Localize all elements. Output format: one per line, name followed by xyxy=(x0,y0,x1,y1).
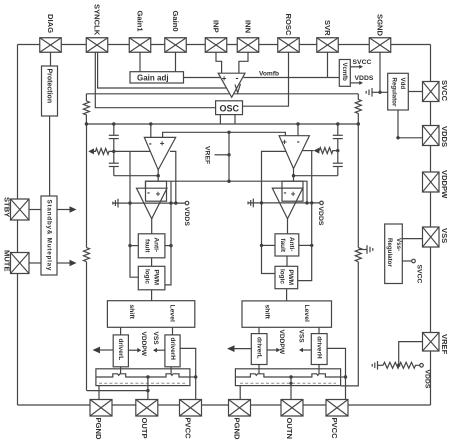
wire MUTE pad to Standby block xyxy=(29,262,41,264)
block Anti-fault right xyxy=(275,234,299,256)
svg-text:shift: shift xyxy=(263,305,270,320)
block driverH left xyxy=(165,335,180,367)
wire right feedback vertical upper xyxy=(357,124,359,248)
svg-text:SVCC: SVCC xyxy=(353,59,372,66)
wire DIAG to Protection xyxy=(50,52,52,66)
node AF-R right xyxy=(310,244,313,247)
node AF-L right xyxy=(169,244,172,247)
wire LS-L to driverH xyxy=(172,327,174,335)
wire left border xyxy=(17,45,19,406)
wire net A to opamp1R inverting input xyxy=(297,124,299,136)
node opamp1R output junction xyxy=(292,174,295,177)
svg-text:-: - xyxy=(284,187,287,197)
svg-text:OUTN: OUTN xyxy=(285,418,294,440)
block Anti-fault left xyxy=(138,234,165,258)
terminal VDDS left channel xyxy=(185,201,189,205)
wire opamp1L output xyxy=(157,170,159,176)
node right rail tap1 xyxy=(260,201,263,204)
wire VREF label stub xyxy=(215,154,230,156)
wire gate high-side left xyxy=(170,367,172,374)
ground arrow driverL left xyxy=(93,347,114,354)
pad VSS xyxy=(423,227,440,247)
wire line2 to rail left xyxy=(170,181,172,203)
wire SYNCLK down and right to OSC xyxy=(95,52,215,107)
terminal VDDS at divider xyxy=(420,364,424,368)
wire gate low-side right xyxy=(258,365,260,374)
node left feedback mid xyxy=(112,150,115,153)
terminal VDDS right channel xyxy=(320,201,324,205)
block Vcmfb xyxy=(339,60,350,87)
svg-text:shift: shift xyxy=(128,305,135,320)
wire VREF pad to divider xyxy=(399,342,423,366)
svg-text:+: + xyxy=(222,74,227,83)
pad SGND xyxy=(369,38,391,53)
svg-text:+: + xyxy=(291,189,296,198)
wire power rect to PVCC right xyxy=(341,376,346,378)
wire left tap of opamp1R down xyxy=(262,151,287,203)
resistor right feedback vertical xyxy=(355,248,361,262)
wire VREF distribution line xyxy=(163,132,286,137)
wire SYNCLK branch to input op-amp xyxy=(98,52,227,88)
wire comparator reference line xyxy=(146,181,308,203)
node A opamp1L input xyxy=(149,122,152,125)
svg-text:VDDS: VDDS xyxy=(424,370,431,389)
svg-text:-: - xyxy=(147,187,150,197)
resistor right feedback xyxy=(319,148,338,154)
svg-text:driverL: driverL xyxy=(117,339,124,361)
resistor left feedback vertical xyxy=(84,248,90,262)
svg-text:OSC: OSC xyxy=(220,103,240,113)
wire OUTN down xyxy=(290,377,292,400)
block power stage right xyxy=(235,369,340,386)
wire right channel VDDS rail xyxy=(248,202,320,204)
svg-text:SVCC: SVCC xyxy=(416,265,423,284)
svg-text:Gain0: Gain0 xyxy=(171,11,180,32)
svg-text:Regulator: Regulator xyxy=(390,78,397,107)
svg-text:logic: logic xyxy=(278,269,285,284)
wire net A to opamp1L inverting input xyxy=(150,124,152,137)
svg-text:VDDS: VDDS xyxy=(317,207,324,226)
svg-text:VDDPW: VDDPW xyxy=(140,332,147,357)
svg-text:driverL: driverL xyxy=(256,337,263,359)
pad STBY xyxy=(11,199,30,220)
svg-text:+: + xyxy=(160,139,165,148)
svg-text:STBY: STBY xyxy=(2,197,11,217)
pad VREF xyxy=(423,333,440,352)
node VREF divider tap xyxy=(397,364,400,367)
wire standby output arrow xyxy=(57,206,77,213)
wire right border xyxy=(430,45,432,406)
wire VDDPW arrow right xyxy=(267,348,280,353)
op-amp U1 input stage xyxy=(218,73,245,97)
node A opamp1R input xyxy=(296,122,299,125)
svg-text:fault: fault xyxy=(279,239,286,253)
node left rail tap2 xyxy=(169,201,172,204)
svg-text:VSS: VSS xyxy=(297,330,304,344)
wire left feedback vertical lower xyxy=(86,262,88,391)
pad VDDPW xyxy=(423,172,440,192)
wire PVCC right connection xyxy=(327,348,345,399)
wire comparator R output xyxy=(287,219,289,234)
wire top border xyxy=(18,44,431,46)
node VREF line center xyxy=(227,131,230,134)
wire Vss regulator SVCC stub xyxy=(402,260,412,262)
svg-text:Vss-: Vss- xyxy=(395,238,402,251)
svg-text:SGND: SGND xyxy=(376,14,385,36)
svg-text:logic: logic xyxy=(144,269,151,284)
svg-text:PGND: PGND xyxy=(94,418,103,440)
ground stub at right feedback resistor xyxy=(358,245,373,254)
wire output interconnect left xyxy=(114,175,158,177)
node A left end xyxy=(85,122,88,125)
pad MUTE xyxy=(11,253,30,274)
node AF-L left xyxy=(128,244,131,247)
block Level shift right xyxy=(242,301,332,327)
node A right end xyxy=(357,122,360,125)
node reference line VREF xyxy=(227,180,230,183)
pad SYNCLK xyxy=(86,38,108,53)
svg-text:fault: fault xyxy=(144,239,151,253)
svg-text:Vcmfb: Vcmfb xyxy=(341,63,347,82)
svg-text:INP: INP xyxy=(212,20,221,33)
wire OUTP down xyxy=(147,377,149,400)
block power stage left xyxy=(96,369,190,386)
wire SGND to Vdd regulator xyxy=(380,91,388,93)
node VDDS corner xyxy=(396,136,399,139)
wire Gain1 down xyxy=(139,52,141,71)
pad OUTP xyxy=(136,400,158,417)
wire Vomfb line op-amp to Vcmfb block xyxy=(244,77,340,79)
svg-text:VSS: VSS xyxy=(152,332,159,346)
svg-text:-: - xyxy=(297,137,300,147)
wire right tap2 down to PWM-R xyxy=(298,203,312,281)
comparator right xyxy=(272,181,303,219)
wire SVR down to Vomfb line xyxy=(327,52,329,77)
wire LS-R to driverL xyxy=(258,327,260,333)
wire into comparator L xyxy=(157,176,159,182)
block driverH right xyxy=(311,334,327,365)
block OSC xyxy=(216,101,243,115)
svg-text:Gain1: Gain1 xyxy=(136,11,145,33)
block PWM logic right xyxy=(275,266,298,288)
svg-text:SVR: SVR xyxy=(323,20,332,36)
wire STBY pad to Standby block xyxy=(29,209,41,211)
pad SVCC xyxy=(423,82,440,102)
wire PVCC left connection xyxy=(180,348,196,399)
wire left channel VDDS rail xyxy=(113,202,186,204)
wire left feedback vertical xyxy=(86,124,88,248)
pad Gain0 xyxy=(165,38,187,53)
wire comparator L output xyxy=(151,219,153,234)
wire Vdd regulator to VDDS pad xyxy=(398,110,423,138)
resistor below SYNCLK line xyxy=(83,94,89,124)
wire bridge left with transistors xyxy=(96,374,190,377)
wire AF-R to PWM-R xyxy=(286,256,288,266)
svg-text:+: + xyxy=(282,137,287,146)
wire bottom border xyxy=(18,404,431,406)
svg-text:Level: Level xyxy=(303,305,310,322)
wire VREF vertical xyxy=(228,132,230,181)
node SGND junction xyxy=(378,91,381,94)
block Vss-Regulator xyxy=(385,224,403,284)
svg-text:OUTP: OUTP xyxy=(140,418,149,439)
wire right tap1 down to PWM-R xyxy=(262,203,276,274)
op-amp integrator right xyxy=(279,136,309,169)
svg-text:PGND: PGND xyxy=(233,418,242,440)
wire right tap of opamp1L down xyxy=(170,151,176,203)
svg-text:ROSC: ROSC xyxy=(284,14,293,36)
block driverL right xyxy=(251,334,267,365)
wire left tap1 down to PWM-L xyxy=(130,203,138,277)
wire AF-R left side xyxy=(262,244,276,246)
wire mute output arrow xyxy=(57,260,77,267)
node AF-R left xyxy=(260,244,263,247)
svg-text:INN: INN xyxy=(244,20,253,33)
block PWM logic left xyxy=(138,266,165,290)
capacitor right chain bottom xyxy=(333,163,343,176)
wire PGND right connection xyxy=(239,386,241,400)
wire left tap down xyxy=(129,151,131,203)
wire AF-R right side xyxy=(299,244,312,246)
arrow on right feedback xyxy=(314,148,320,154)
pad SVR xyxy=(317,38,339,53)
wire Vss regulator to VSS pad xyxy=(402,238,422,240)
svg-text:VDDPW: VDDPW xyxy=(278,330,285,355)
terminal SVCC at Vss regulator xyxy=(412,259,416,263)
wire VDDPW arrow left xyxy=(128,348,141,353)
ground arrow left feedback xyxy=(88,148,94,154)
wire AF-L to PWM-L xyxy=(151,258,153,267)
pad PVCC left xyxy=(180,400,202,417)
node PVCC right stub xyxy=(344,375,347,378)
wire bridge right with transistors xyxy=(235,374,340,377)
ground at VREF divider xyxy=(372,361,383,370)
wire gate low-side left xyxy=(120,367,122,374)
svg-text:+: + xyxy=(156,189,161,198)
block Standby and Mute xyxy=(41,196,57,275)
svg-text:Gain adj: Gain adj xyxy=(137,74,169,83)
pad INP xyxy=(205,38,227,53)
svg-text:driverH: driverH xyxy=(169,338,176,361)
capacitor right chain top xyxy=(333,124,343,163)
pad OUTN xyxy=(281,400,303,417)
svg-text:VDDS: VDDS xyxy=(355,75,374,82)
block Protection xyxy=(42,66,58,116)
wire PWM-L to level shift xyxy=(151,290,153,301)
wire Gain0 down xyxy=(175,52,177,71)
ground left channel rail xyxy=(113,199,118,208)
wire INP into op-amp xyxy=(216,52,222,73)
svg-text:DIAG: DIAG xyxy=(46,14,55,33)
wire main horizontal net A xyxy=(86,123,358,125)
svg-text:MUTE: MUTE xyxy=(2,250,11,272)
wire SGND down xyxy=(379,52,381,92)
wire VSS arrow right xyxy=(299,348,311,353)
pad VDDS xyxy=(423,126,440,146)
wire ROSC down into OSC xyxy=(243,52,289,106)
svg-text:VDDS: VDDS xyxy=(440,126,449,147)
wire LS-L to driverL xyxy=(120,327,122,335)
svg-text:VREF: VREF xyxy=(440,334,449,355)
svg-text:VDDS: VDDS xyxy=(183,207,190,226)
pad INN xyxy=(237,38,259,53)
node left rail tap1 xyxy=(128,201,131,204)
wire LS-R to driverH xyxy=(318,327,320,333)
svg-text:-: - xyxy=(149,138,152,148)
wire Vdd regulator to SVCC pad xyxy=(408,91,422,93)
svg-text:PWM: PWM xyxy=(153,270,160,286)
block Vdd Regulator xyxy=(388,73,409,110)
op-amp integrator left xyxy=(144,137,175,169)
wire opamp1R output xyxy=(293,169,295,176)
wire PGND left connection xyxy=(98,386,100,400)
wire Vcmfb VDDS stub arrow xyxy=(350,81,363,85)
svg-text:VREF: VREF xyxy=(204,146,211,164)
wire OSC output left drop xyxy=(219,115,221,124)
svg-text:Vdd: Vdd xyxy=(399,78,406,90)
ground at SGND net xyxy=(366,88,380,97)
pad PGND right xyxy=(229,400,251,417)
node VREF stub junction xyxy=(227,153,230,156)
node right feedback mid xyxy=(336,149,339,152)
svg-text:SYNCLK: SYNCLK xyxy=(93,4,102,36)
svg-text:PVCC: PVCC xyxy=(330,418,339,440)
pad PGND left xyxy=(90,400,112,417)
block driverL left xyxy=(113,335,128,367)
wire gate high-side right xyxy=(318,365,320,374)
svg-text:PWM: PWM xyxy=(287,270,294,286)
pad DIAG xyxy=(40,38,62,53)
svg-text:Standby& Muteplay: Standby& Muteplay xyxy=(45,200,52,271)
wire right tap of opamp1R xyxy=(303,150,314,152)
capacitor left chain top xyxy=(109,124,119,163)
svg-text:-: - xyxy=(236,73,239,83)
block Gain adj xyxy=(130,72,184,83)
wire left tap2 down to PWM-L xyxy=(165,203,171,285)
wire INN into op-amp xyxy=(239,52,248,73)
svg-text:Anti-: Anti- xyxy=(288,237,295,252)
comparator left xyxy=(137,181,168,219)
svg-text:Vomfb: Vomfb xyxy=(259,70,279,77)
node right rail tap2 xyxy=(305,201,308,204)
svg-text:driverH: driverH xyxy=(316,336,323,359)
wire Gain adj to op-amp input xyxy=(184,77,221,79)
wire VSS arrow left xyxy=(153,348,165,353)
node OUTP tap xyxy=(146,375,149,378)
resistor left feedback xyxy=(93,148,114,154)
resistor VREF divider xyxy=(383,362,420,368)
pad ROSC xyxy=(278,38,300,53)
wire output interconnect right xyxy=(294,175,338,177)
node left rail tap3 xyxy=(174,201,177,204)
wire PWM-R to level shift xyxy=(286,289,288,301)
node OUTP feedback xyxy=(146,389,149,392)
svg-text:Anti-: Anti- xyxy=(153,238,160,253)
wire AF-L left side xyxy=(130,245,138,247)
svg-text:Level: Level xyxy=(169,305,176,322)
wire OSC output right drop xyxy=(234,115,236,124)
wire Protection to Standby block xyxy=(49,116,51,196)
svg-text:Protection: Protection xyxy=(46,69,53,104)
wire right feedback vertical lower xyxy=(341,262,359,386)
node PVCC left stub xyxy=(194,375,197,378)
svg-text:PVCC: PVCC xyxy=(184,418,193,440)
wire OUTP feedback left xyxy=(87,390,148,392)
capacitor left chain bottom xyxy=(109,163,119,176)
wire common-mode output line left part xyxy=(86,93,358,95)
ground right channel rail xyxy=(248,199,253,208)
wire dashed substrate left xyxy=(99,382,187,384)
node OUTN dashed cross xyxy=(290,382,293,385)
svg-text:Regulator: Regulator xyxy=(386,238,393,267)
svg-text:VSS: VSS xyxy=(440,228,449,243)
wire right tap vertical xyxy=(311,151,313,203)
wire AF-L right side xyxy=(165,245,171,247)
node opamp1L output junction xyxy=(157,174,160,177)
resistor on right feedback top xyxy=(355,94,361,124)
wire Vcmfb SVCC stub arrow xyxy=(350,65,363,69)
svg-text:SVCC: SVCC xyxy=(440,80,449,102)
node right rail tap3 xyxy=(310,201,313,204)
wire dashed substrate right xyxy=(240,382,336,384)
svg-text:VDDPW: VDDPW xyxy=(440,170,449,199)
pad Gain1 xyxy=(129,38,151,53)
pad PVCC right xyxy=(326,400,348,417)
node A cap chain left xyxy=(112,122,115,125)
wire into comparator R xyxy=(293,176,295,182)
ground arrow driverL right xyxy=(227,345,251,352)
wire power rect to PVCC left xyxy=(190,376,196,378)
node A cap chain right xyxy=(336,122,339,125)
block Level shift left xyxy=(107,301,194,328)
wire left feedback to opamp edge xyxy=(114,150,151,152)
node OUTN tap xyxy=(289,375,292,378)
